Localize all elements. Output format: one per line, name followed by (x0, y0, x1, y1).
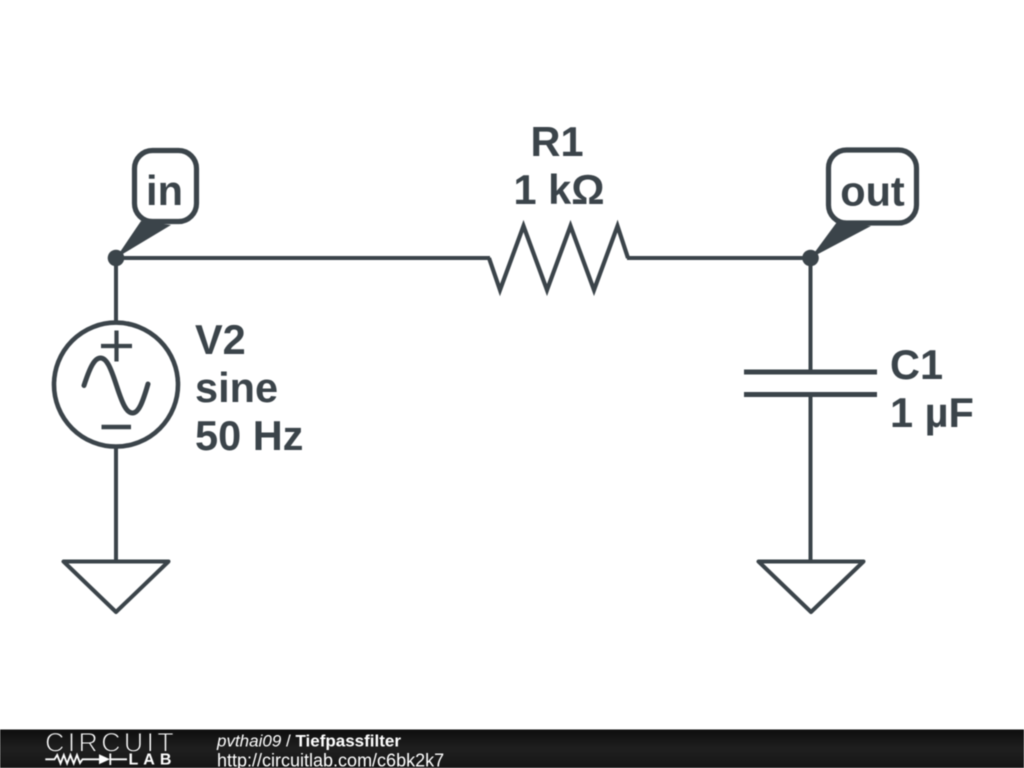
svg-text:LAB: LAB (129, 752, 177, 768)
svg-text:V2: V2 (195, 316, 246, 363)
ground (left) (64, 562, 169, 613)
V2 sine wave (84, 358, 148, 413)
wire: V2 to left ground (114, 447, 118, 562)
svg-text:in: in (146, 167, 183, 214)
ground (right) (759, 562, 864, 613)
wire: resistor to out node (627, 256, 811, 260)
node dot: out (802, 250, 819, 267)
svg-text:1 kΩ: 1 kΩ (514, 166, 605, 213)
svg-text:pvthai09 / Tiefpassfilter: pvthai09 / Tiefpassfilter (216, 732, 401, 751)
wire: C1 to right ground (809, 394, 813, 562)
wire: in node to resistor (116, 256, 490, 260)
wire: in node down to V2 (114, 256, 118, 323)
V2 minus sign (102, 425, 132, 430)
out flag pointer (811, 222, 872, 258)
wire: out node down to C1 (809, 256, 813, 372)
resistor R1 (489, 226, 628, 290)
svg-text:R1: R1 (530, 118, 583, 165)
out flag box (829, 150, 917, 223)
svg-text:C1: C1 (890, 341, 943, 388)
CircuitLab logo: resistor-diode glyph (45, 754, 127, 766)
svg-text:http://circuitlab.com/c6bk2k7: http://circuitlab.com/c6bk2k7 (217, 750, 444, 768)
svg-text:out: out (840, 168, 905, 215)
svg-text:1 µF: 1 µF (890, 389, 974, 436)
in flag pointer (116, 221, 171, 258)
capacitor C1 top plate (744, 370, 877, 375)
voltage source V2 circle (54, 323, 178, 447)
V2 plus sign (101, 331, 132, 362)
svg-text:50 Hz: 50 Hz (195, 412, 303, 459)
svg-text:sine: sine (195, 364, 278, 411)
node dot: in (108, 250, 125, 267)
in flag box (135, 151, 197, 222)
capacitor C1 bottom plate (744, 392, 877, 397)
